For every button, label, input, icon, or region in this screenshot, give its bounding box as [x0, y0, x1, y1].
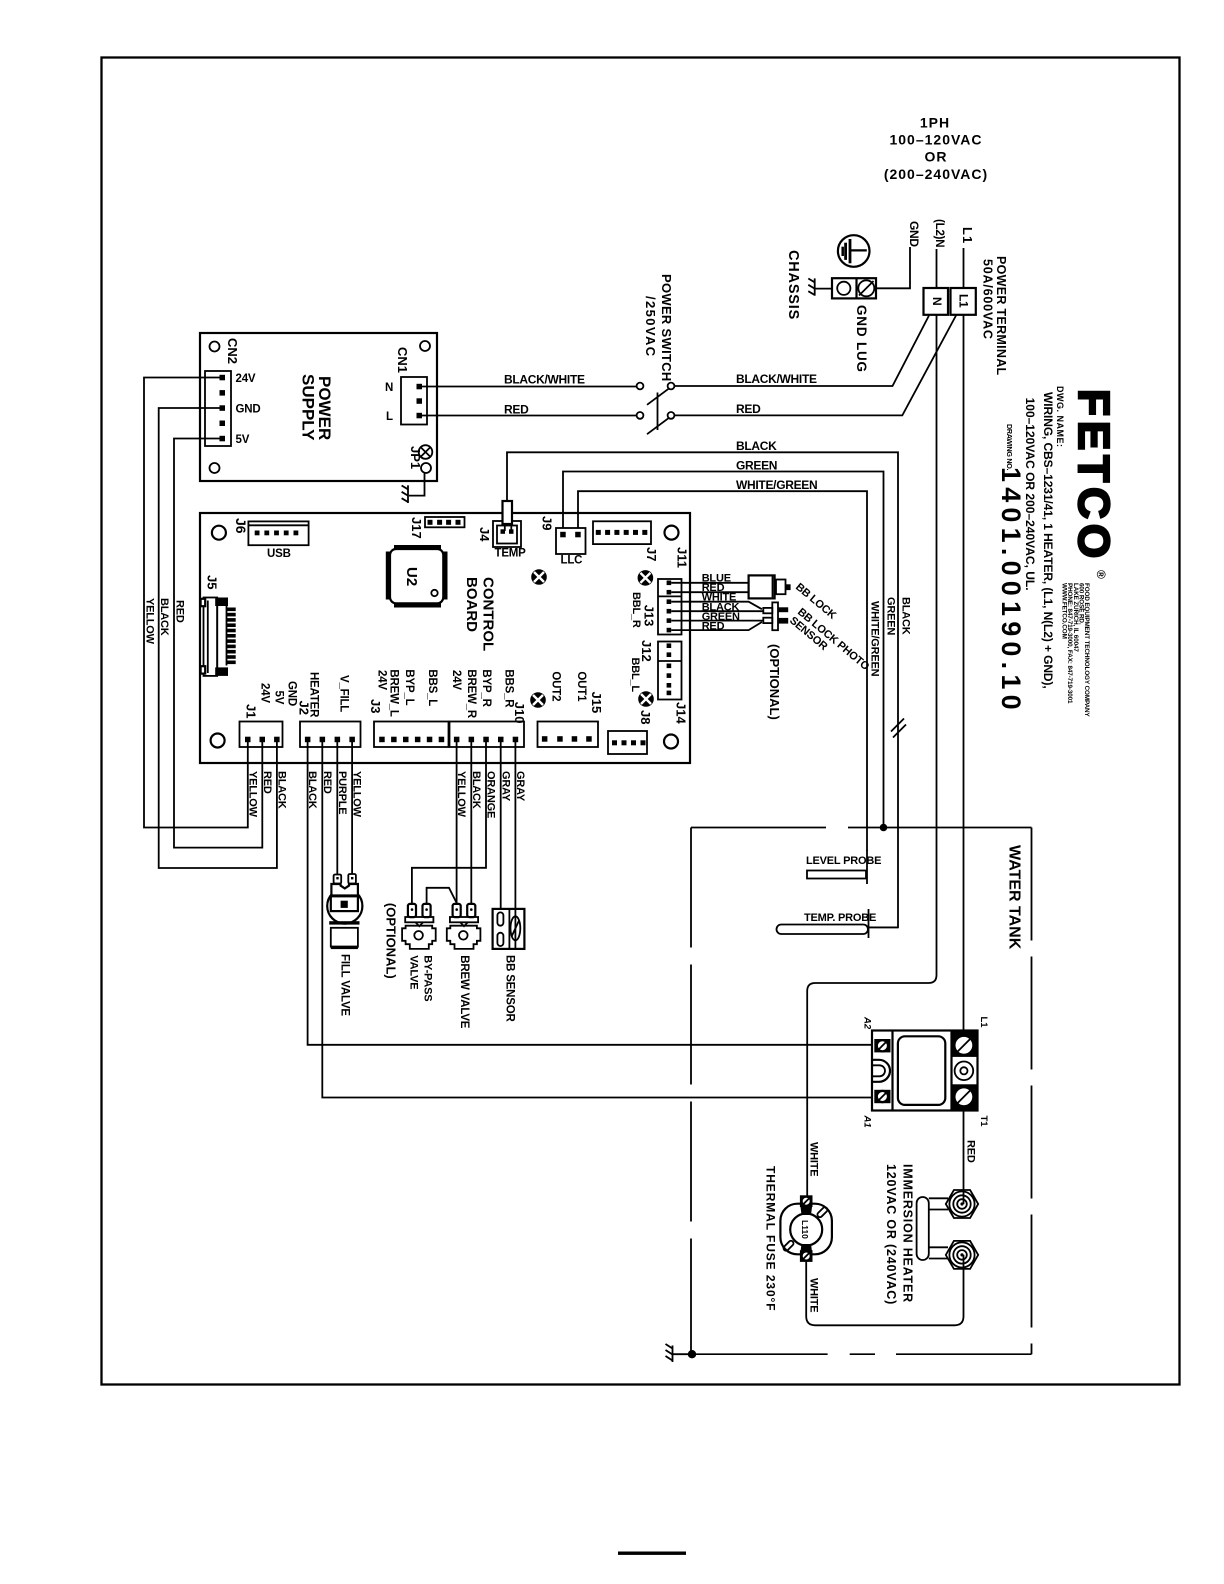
- svg-text:VALVE: VALVE: [408, 955, 420, 989]
- svg-text:HEATER: HEATER: [308, 672, 320, 718]
- control board outline: [200, 513, 690, 763]
- svg-text:CN2: CN2: [225, 338, 240, 364]
- svg-text:YELLOW: YELLOW: [144, 598, 156, 645]
- svg-text:BYP_R: BYP_R: [480, 669, 492, 707]
- svg-text:BY-PASS: BY-PASS: [421, 955, 433, 1001]
- bottom page mark: [618, 1552, 686, 1555]
- wire switch to terminal L1 RED: [674, 316, 956, 416]
- screw J8: [638, 691, 654, 707]
- svg-text:RED: RED: [965, 1140, 977, 1163]
- labels J13 wire colors BLUE RED WHITE BLACK GREEN RED: [702, 573, 740, 633]
- wire J2 PURPLE to fill valve: [336, 740, 338, 875]
- wire L1 to SSR: [963, 315, 965, 1031]
- svg-text:100–120VAC: 100–120VAC: [889, 132, 982, 148]
- svg-text:24V: 24V: [236, 373, 256, 385]
- svg-text:J6: J6: [233, 518, 249, 534]
- screw near OUT2: [530, 692, 546, 708]
- wire WHITE/GREEN from J9 to level probe: [578, 491, 867, 851]
- immersion heater: [917, 1190, 979, 1269]
- svg-text:J9: J9: [540, 516, 555, 530]
- svg-text:L110: L110: [800, 1220, 810, 1239]
- svg-text:J14: J14: [674, 702, 689, 724]
- svg-text:J3: J3: [368, 699, 383, 713]
- svg-text:®: ®: [1094, 570, 1108, 579]
- svg-text:N: N: [930, 297, 944, 305]
- chassis ground symbol: [838, 235, 870, 267]
- svg-text:GREEN: GREEN: [736, 459, 777, 473]
- wire J10 YELLOW to brew valve: [456, 740, 458, 904]
- svg-text:BBL_L: BBL_L: [629, 658, 641, 693]
- wire J10 BLACK to brew valve: [470, 740, 472, 904]
- connector J11: [593, 521, 651, 544]
- power terminal block: [924, 288, 976, 315]
- wire GREEN from J9 to tank: [563, 472, 884, 826]
- svg-text:WATER TANK: WATER TANK: [1006, 845, 1023, 950]
- svg-text:WIRING, CBS–1231/41, 1 HEATER,: WIRING, CBS–1231/41, 1 HEATER, (L1, N(L2…: [1041, 392, 1055, 689]
- svg-text:GND: GND: [236, 404, 261, 416]
- svg-text:5V: 5V: [236, 434, 250, 446]
- svg-text:J8: J8: [638, 710, 653, 724]
- svg-text:(OPTIONAL): (OPTIONAL): [384, 903, 399, 979]
- by-pass valve: [402, 904, 436, 949]
- brew valve: [447, 904, 481, 949]
- wire CN1 L to switch RED: [419, 415, 637, 417]
- wire J2 RED to SSR A1: [322, 740, 872, 1098]
- svg-text:BYP_L: BYP_L: [403, 669, 415, 705]
- svg-text:(OPTIONAL): (OPTIONAL): [767, 644, 782, 720]
- wire switch to terminal N BLACK/WHITE: [674, 316, 929, 387]
- svg-text:RED: RED: [174, 600, 186, 623]
- svg-text:A2: A2: [862, 1016, 873, 1030]
- svg-text:L1: L1: [960, 227, 975, 244]
- wire CN1 N to switch BLACK/WHITE: [419, 386, 637, 388]
- svg-text:GND LUG: GND LUG: [854, 305, 869, 373]
- wire J13 RED: [671, 591, 748, 593]
- svg-text:YELLOW: YELLOW: [246, 771, 258, 818]
- svg-text:BLACK: BLACK: [736, 439, 777, 453]
- svg-text:5V: 5V: [273, 691, 285, 705]
- svg-text:USB: USB: [267, 548, 291, 560]
- svg-text:FETCO: FETCO: [1069, 389, 1118, 563]
- svg-text:WHITE: WHITE: [808, 1142, 820, 1176]
- screw J7: [638, 570, 654, 586]
- svg-text:1401.00190.10: 1401.00190.10: [996, 467, 1026, 715]
- svg-text:J5: J5: [205, 575, 220, 589]
- svg-text:/250VAC: /250VAC: [643, 296, 658, 358]
- BB LOCK PHOTO SENSOR: [763, 602, 788, 630]
- node: incoming mains label 1PH: [884, 115, 988, 183]
- svg-text:J7: J7: [644, 547, 659, 561]
- water tank dashed box: [691, 828, 1032, 1355]
- wire GND drop to lug: [877, 247, 910, 288]
- wire SSR T1 to heater: [963, 1111, 965, 1205]
- svg-text:BLACK: BLACK: [276, 771, 288, 809]
- svg-text:(L2)N: (L2)N: [933, 219, 945, 247]
- svg-text:L1: L1: [957, 294, 971, 308]
- svg-text:N: N: [385, 382, 393, 394]
- svg-text:POWER SWITCH: POWER SWITCH: [659, 274, 674, 382]
- break mark: [891, 719, 904, 732]
- svg-text:DWG. NAME:: DWG. NAME:: [1055, 386, 1065, 448]
- svg-text:BREW_L: BREW_L: [388, 669, 400, 717]
- BB LOCK: [749, 575, 791, 598]
- svg-text:POWER TERMINAL: POWER TERMINAL: [994, 256, 1008, 376]
- junction dot green to tank: [880, 824, 888, 832]
- svg-text:24V: 24V: [259, 683, 271, 703]
- fill valve: [327, 874, 362, 949]
- svg-text:LLC: LLC: [561, 555, 583, 567]
- wire J10 GRAY to bb sensor 2: [514, 740, 516, 909]
- wire J10 ORANGE to bypass valve: [412, 740, 486, 904]
- svg-text:L: L: [386, 411, 393, 423]
- IC U2: [386, 545, 448, 608]
- svg-text:LEVEL PROBE: LEVEL PROBE: [806, 855, 881, 867]
- svg-text:L1: L1: [978, 1017, 989, 1029]
- svg-text:(200–240VAC): (200–240VAC): [884, 166, 988, 182]
- svg-text:120VAC OR (240VAC): 120VAC OR (240VAC): [884, 1164, 898, 1305]
- svg-text:BLACK/WHITE: BLACK/WHITE: [504, 373, 585, 387]
- wire L1 drop: [963, 248, 965, 288]
- wire fuse bottom to heater bottom: [806, 1255, 963, 1325]
- wire bypass to yellow jog: [427, 888, 457, 904]
- svg-text:TEMP. PROBE: TEMP. PROBE: [804, 912, 876, 924]
- svg-text:BLACK: BLACK: [158, 598, 170, 636]
- svg-text:BREW_R: BREW_R: [465, 669, 477, 719]
- svg-text:J1: J1: [244, 704, 259, 718]
- svg-text:BBS_R: BBS_R: [503, 669, 515, 708]
- wire (L2)N drop: [936, 249, 938, 288]
- wire N white to thermal fuse: [807, 315, 936, 1196]
- svg-text:J11: J11: [675, 547, 690, 568]
- svg-text:CONTROL: CONTROL: [480, 577, 497, 651]
- svg-text:BREW VALVE: BREW VALVE: [458, 955, 470, 1028]
- svg-text:FILL VALVE: FILL VALVE: [339, 954, 351, 1016]
- svg-text:24V: 24V: [376, 670, 388, 690]
- wire J13 BLUE: [671, 582, 748, 584]
- svg-text:J17: J17: [409, 517, 424, 539]
- wire JP1 to chassis: [409, 473, 425, 496]
- wire chassis tab to lug: [815, 288, 832, 290]
- svg-text:J13: J13: [642, 605, 657, 627]
- svg-text:GND: GND: [286, 681, 298, 706]
- svg-text:50A/600VAC: 50A/600VAC: [981, 259, 995, 340]
- svg-text:RED: RED: [702, 620, 725, 632]
- svg-text:BLACK: BLACK: [900, 597, 912, 635]
- svg-text:T1: T1: [978, 1116, 989, 1128]
- screw on board left: [531, 569, 547, 585]
- chassis tab symbol left of lug: [808, 278, 814, 295]
- svg-text:24V: 24V: [450, 670, 462, 690]
- svg-text:RED: RED: [261, 771, 273, 794]
- svg-text:SUPPLY: SUPPLY: [299, 374, 318, 441]
- wire CN2 5V red loop to J1: [174, 439, 262, 848]
- wire J13 GREEN: [671, 620, 763, 622]
- chassis tab at JP1: [402, 485, 408, 503]
- svg-text:OR: OR: [925, 149, 948, 165]
- screw near JP1: [419, 445, 433, 459]
- wire J2 BLACK to SSR A2: [308, 740, 872, 1045]
- power switch: [637, 383, 675, 435]
- svg-text:GREEN: GREEN: [885, 597, 897, 635]
- svg-text:BLACK/WHITE: BLACK/WHITE: [736, 372, 817, 386]
- wire J13 BLACK: [671, 610, 763, 612]
- svg-text:WHITE/GREEN: WHITE/GREEN: [736, 478, 817, 492]
- svg-text:WHITE/GREEN: WHITE/GREEN: [869, 601, 881, 677]
- svg-text:DRAWING NO.: DRAWING NO.: [1005, 424, 1014, 471]
- wire J10 GRAY to bb sensor 1: [500, 740, 502, 909]
- svg-text:1PH: 1PH: [920, 115, 950, 131]
- svg-text:A1: A1: [862, 1115, 873, 1128]
- svg-text:CN1: CN1: [395, 347, 410, 373]
- svg-text:WHITE: WHITE: [808, 1278, 820, 1312]
- svg-text:GND: GND: [907, 221, 921, 247]
- svg-text:RED: RED: [504, 403, 529, 417]
- wire J13 WHITE: [671, 602, 762, 610]
- svg-text:OUT1: OUT1: [575, 671, 587, 702]
- svg-text:IMMERSION HEATER: IMMERSION HEATER: [901, 1164, 915, 1303]
- GND lug: [832, 278, 876, 298]
- svg-text:THERMAL FUSE 230°F: THERMAL FUSE 230°F: [764, 1166, 778, 1311]
- svg-text:BB SENSOR: BB SENSOR: [504, 955, 516, 1022]
- thermal fuse: [780, 1195, 832, 1262]
- wire BLACK from J4 to temp probe: [507, 452, 898, 927]
- SSR solid state relay: [872, 1031, 978, 1111]
- svg-text:BOARD: BOARD: [463, 577, 480, 632]
- power supply box: [200, 333, 437, 481]
- svg-text:J15: J15: [589, 692, 604, 714]
- svg-text:OUT2: OUT2: [550, 671, 562, 701]
- svg-text:WWW.FETCO.COM: WWW.FETCO.COM: [1061, 583, 1068, 639]
- wire J2 YELLOW to fill valve: [351, 740, 353, 874]
- svg-text:BBL_R: BBL_R: [630, 592, 642, 628]
- BB sensor: [493, 909, 525, 949]
- svg-text:U2: U2: [403, 567, 420, 586]
- ground at tank: [688, 1350, 696, 1358]
- svg-text:J4: J4: [477, 527, 492, 542]
- svg-text:V_FILL: V_FILL: [338, 675, 350, 712]
- svg-text:CHASSIS: CHASSIS: [785, 250, 801, 320]
- svg-text:TEMP: TEMP: [495, 548, 527, 560]
- svg-text:RED: RED: [736, 402, 761, 416]
- wire CN2 GND black loop to J1: [159, 408, 277, 868]
- wire CN2 24V yellow loop to J1: [144, 378, 248, 828]
- wire J13 RED2: [671, 622, 762, 630]
- svg-text:BBS_L: BBS_L: [426, 669, 438, 706]
